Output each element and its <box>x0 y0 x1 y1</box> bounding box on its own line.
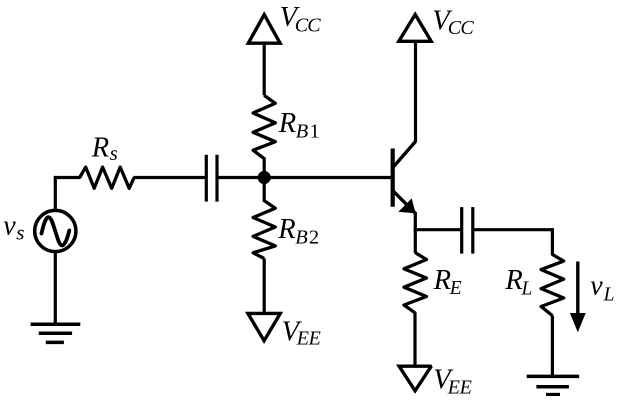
label v_L <box>590 270 614 305</box>
resistor RB2 <box>253 201 275 259</box>
wire emitter down to RE <box>414 212 417 253</box>
label v_s <box>3 210 24 244</box>
Q1 collector diagonal <box>394 141 416 166</box>
power V_EE left (down triangle) <box>248 313 280 340</box>
label R_E <box>433 265 462 299</box>
voltage source VS <box>35 210 76 251</box>
Q1 emitter diagonal <box>394 191 416 213</box>
Q1 emitter arrowhead <box>400 200 415 213</box>
svg-text:v: v <box>590 270 603 301</box>
wire RE to VEE triangle <box>413 312 416 366</box>
label V_CC left <box>280 2 322 36</box>
resistor RB1 <box>253 95 275 158</box>
label V_CC right <box>432 5 474 39</box>
svg-text:R: R <box>504 265 522 296</box>
wire RB2 to VEE triangle <box>263 259 266 314</box>
power V_EE right (down triangle) <box>399 366 431 391</box>
svg-text:R: R <box>433 265 451 296</box>
wire RL to ground <box>551 316 554 377</box>
wire node to RB2 <box>263 178 266 202</box>
capacitor C1 <box>206 155 217 202</box>
svg-text:v: v <box>3 210 16 241</box>
svg-text:L: L <box>521 278 533 299</box>
label R_L <box>504 265 532 299</box>
svg-text:R: R <box>277 214 295 245</box>
node B (base junction dot) <box>258 171 271 184</box>
wire RB1 to VCC triangle <box>263 43 266 95</box>
svg-text:CC: CC <box>295 14 322 36</box>
wire collector to VCC <box>414 41 417 142</box>
wire C1 to base (through node) <box>218 176 391 179</box>
ground left <box>31 324 81 342</box>
wire node to RB1 <box>263 158 266 178</box>
ground right <box>527 376 579 394</box>
resistor RS <box>80 167 134 188</box>
resistor RL <box>541 255 564 316</box>
label V_EE left <box>282 316 321 349</box>
resistor RE <box>404 253 427 313</box>
svg-text:s: s <box>110 141 118 165</box>
label V_EE right <box>433 365 471 399</box>
svg-text:B1: B1 <box>296 121 321 143</box>
power V_CC left (up triangle) <box>248 15 280 44</box>
label R_B2 <box>277 214 320 249</box>
wire source top <box>54 179 57 211</box>
svg-text:L: L <box>603 285 615 306</box>
svg-text:R: R <box>91 132 109 163</box>
label R_B1 <box>278 108 321 143</box>
svg-text:B2: B2 <box>295 227 320 249</box>
label R_s <box>91 132 118 165</box>
svg-text:s: s <box>16 221 24 245</box>
wire source to Rs <box>54 176 81 179</box>
arrow v_L <box>570 262 586 333</box>
svg-text:EE: EE <box>296 327 321 349</box>
svg-text:EE: EE <box>447 376 472 396</box>
wire emitter node to C2 <box>414 228 461 231</box>
transistor Q1 <box>393 141 416 213</box>
wire Rs to C1 <box>133 176 205 179</box>
Q1 base bar <box>391 149 395 207</box>
wire C2 to RL corner <box>474 230 552 256</box>
power V_CC right (up triangle) <box>399 15 431 42</box>
svg-text:E: E <box>449 278 462 299</box>
capacitor C2 <box>462 207 473 254</box>
svg-text:R: R <box>278 108 296 139</box>
svg-text:CC: CC <box>448 17 475 39</box>
wire source bottom to ground <box>54 252 57 325</box>
